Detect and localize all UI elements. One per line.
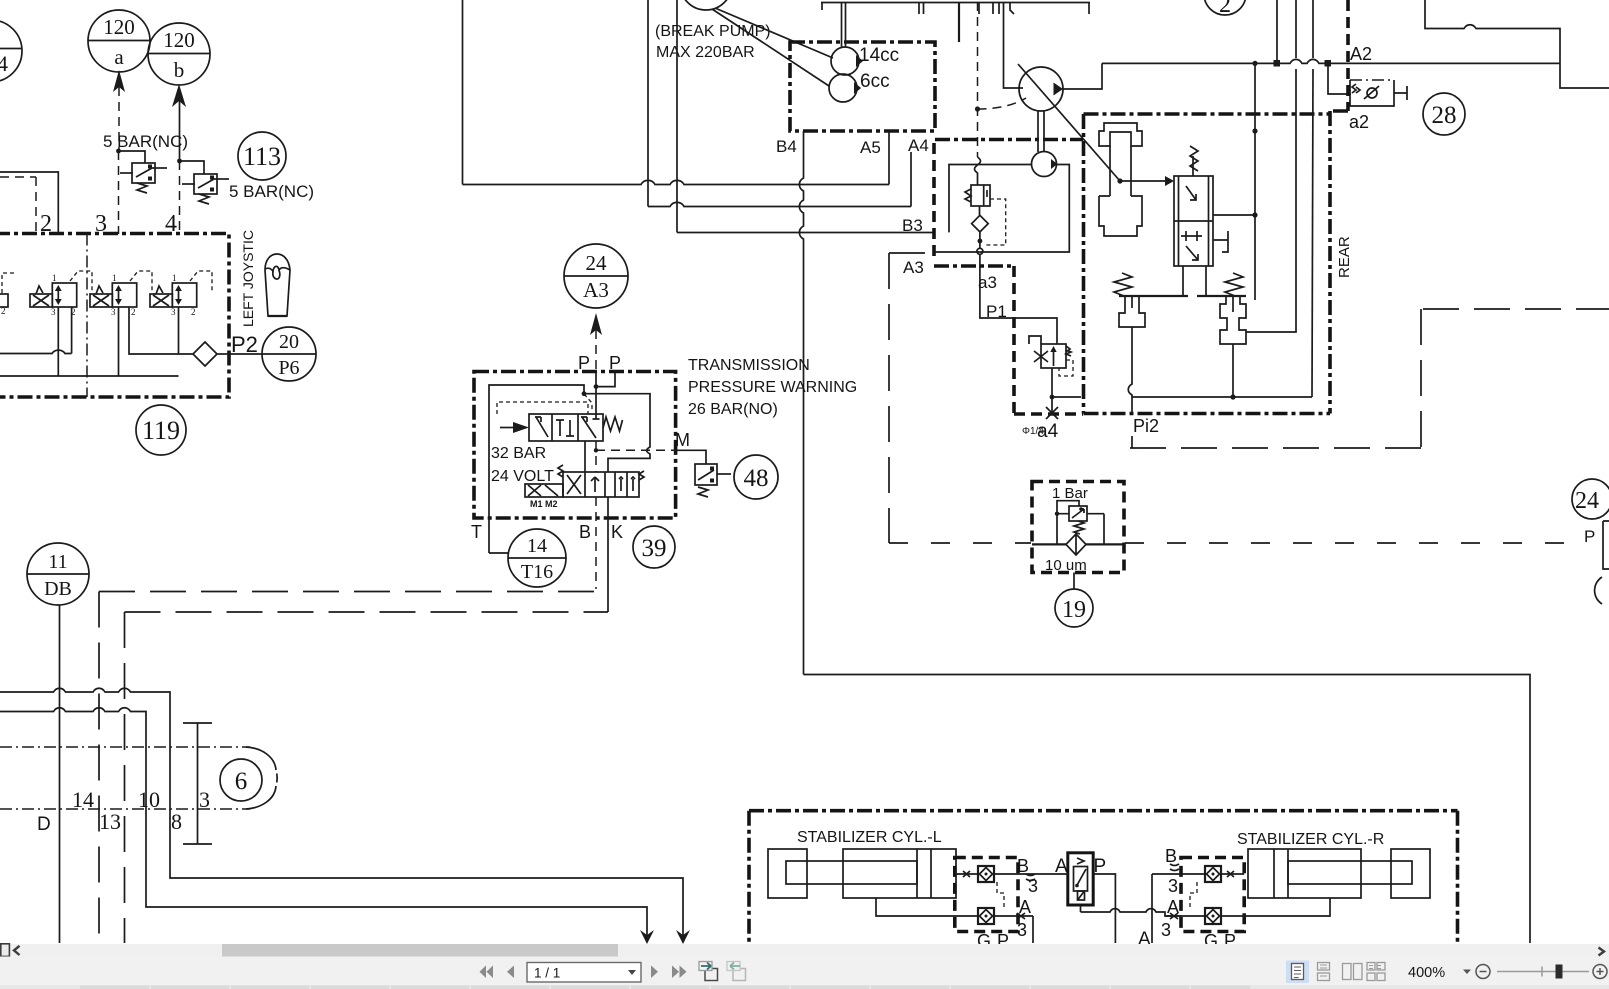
wire plunger right down — [1232, 344, 1234, 397]
svg-text:24 VOLT: 24 VOLT — [491, 468, 554, 485]
long dashed line K — [125, 611, 609, 613]
feeder x1255 — [1254, 63, 1256, 300]
wire 120a dashed drop — [118, 87, 120, 151]
valve bank box 119 — [0, 234, 229, 398]
balloon 14/T16 — [508, 529, 566, 587]
breakpump box — [790, 42, 935, 131]
A3 block dashed edges — [1012, 266, 1016, 414]
wire y206 (to A4) — [648, 202, 911, 206]
pump out wire — [1063, 63, 1102, 89]
balloon 20/P6 — [262, 327, 316, 381]
zoom out — [1476, 965, 1490, 979]
rail ticks — [821, 3, 823, 11]
wire bus y376 — [0, 375, 179, 377]
continuous mode icon — [1318, 963, 1330, 981]
cyl L bottom pipe — [876, 898, 940, 916]
plunger right — [1220, 296, 1246, 344]
dashed region left edge — [889, 253, 930, 543]
dash-dot line lower — [0, 808, 250, 810]
pump 6cc — [829, 74, 861, 102]
charge pump — [1032, 152, 1058, 177]
control valve spool — [1165, 146, 1228, 266]
dashed drops left — [98, 592, 100, 944]
svg-text:A2: A2 — [1350, 44, 1372, 64]
transmission box — [474, 372, 676, 519]
big pump (variable) — [1018, 64, 1120, 181]
svg-text:3: 3 — [1168, 876, 1178, 896]
svg-text:A: A — [1019, 897, 1031, 917]
wire valve B side — [1033, 873, 1068, 875]
wire filter to 19 — [1073, 573, 1075, 590]
wire L A down — [1032, 916, 1034, 943]
wire a3 down — [980, 254, 1057, 344]
arrow down 1 — [640, 930, 654, 944]
svg-text:11: 11 — [48, 551, 67, 573]
scrollbar track — [0, 944, 1609, 957]
UI BARS — [0, 944, 1609, 989]
svg-text:a: a — [114, 45, 124, 69]
valve V4 — [150, 271, 212, 317]
svg-text:B: B — [1165, 846, 1177, 866]
wire plunger left down — [1128, 327, 1132, 414]
svg-text:119: 119 — [142, 416, 180, 445]
svg-text:19: 19 — [1062, 597, 1086, 623]
svg-text:STABILIZER CYL.-L: STABILIZER CYL.-L — [797, 829, 942, 846]
wire A cross link — [1081, 909, 1182, 916]
svg-text:1: 1 — [172, 273, 177, 283]
wire A5 vertical — [888, 131, 890, 185]
check block L — [940, 858, 1033, 932]
scrollbar right arrow — [1599, 948, 1605, 956]
balloon 11/DB — [27, 543, 89, 605]
svg-text:48: 48 — [744, 465, 769, 492]
svg-text:P2: P2 — [231, 332, 258, 357]
wire A2 rail — [1102, 59, 1560, 63]
svg-text:(BREAK PUMP): (BREAK PUMP) — [655, 23, 771, 40]
svg-text:B3: B3 — [902, 216, 923, 235]
exit wire right — [1560, 63, 1609, 88]
svg-text:2: 2 — [1, 306, 6, 316]
filter diamond P2 — [193, 342, 217, 366]
wire B4 vertical with hops — [799, 131, 803, 675]
svg-text:13: 13 — [99, 809, 121, 834]
svg-text:3: 3 — [171, 307, 176, 317]
facing mode icon — [1343, 964, 1363, 980]
prev page button — [507, 966, 514, 979]
svg-text:A3: A3 — [903, 258, 924, 277]
svg-text:LEFT JOYSTIC: LEFT JOYSTIC — [240, 230, 256, 327]
A3 dashdot horizontal — [934, 264, 1014, 268]
P jog — [596, 372, 615, 387]
facing continuous icon — [1367, 963, 1385, 981]
cylinder R — [1248, 849, 1430, 898]
wire bundle y711 — [0, 708, 647, 937]
wire A4 vertical — [910, 152, 912, 207]
valve V1 (partial at edge) — [0, 273, 16, 316]
REAR box — [1084, 111, 1349, 414]
solenoid valve 24V — [525, 465, 644, 497]
svg-text:M1 M2: M1 M2 — [530, 499, 558, 509]
balloon 39 — [633, 526, 675, 568]
wire DB down — [59, 605, 61, 943]
svg-text:A4: A4 — [908, 136, 929, 155]
wire T to balloon — [489, 552, 508, 554]
wire charge pump loop — [949, 165, 1032, 233]
balloon top (partial) — [680, 0, 732, 10]
node j2 — [177, 159, 182, 164]
wire left vertical x462 — [462, 0, 464, 185]
feeder x1296 — [1246, 69, 1296, 332]
balloon 24/A3 — [564, 244, 628, 308]
wire a4 down — [1051, 368, 1053, 413]
svg-text:A5: A5 — [860, 138, 881, 157]
svg-text:B4: B4 — [776, 137, 797, 156]
wire bus y353 left — [0, 350, 72, 353]
arrow up to balloon — [590, 313, 602, 335]
svg-text:3: 3 — [1161, 920, 1171, 940]
svg-text:5 BAR(NC): 5 BAR(NC) — [229, 182, 314, 201]
next view icon — [727, 962, 746, 981]
balloon 24 right (partial) — [1572, 479, 1609, 519]
svg-text:24: 24 — [1575, 488, 1599, 514]
svg-text:2: 2 — [191, 307, 196, 317]
balloon 48 — [734, 455, 778, 499]
svg-text:39: 39 — [642, 535, 667, 562]
dash-dot line upper (to coupler 6) — [0, 746, 250, 748]
shaft line 6 — [183, 723, 212, 844]
balloon 4 (partial, left edge) — [0, 20, 22, 82]
inner block frame — [489, 385, 584, 553]
first page button — [480, 966, 494, 979]
svg-text:20: 20 — [279, 331, 299, 353]
svg-text:3: 3 — [111, 307, 116, 317]
svg-text:A: A — [1167, 897, 1179, 917]
svg-text:B: B — [579, 522, 591, 542]
svg-text:B: B — [1017, 856, 1029, 876]
svg-text:T16: T16 — [521, 561, 553, 583]
REAR boundary dashed from top — [1346, 0, 1350, 111]
prev view icon — [699, 962, 718, 981]
svg-text:TRANSMISSION: TRANSMISSION — [688, 357, 810, 374]
Pi2 dashed tail — [1131, 436, 1133, 448]
svg-text:PRESSURE WARNING: PRESSURE WARNING — [688, 379, 857, 396]
pump 14cc — [831, 47, 863, 75]
main return line — [804, 675, 1531, 944]
center valve P — [1068, 853, 1093, 905]
wire valve drop — [584, 441, 586, 472]
node dots on A2 — [1252, 61, 1257, 66]
wire y232 (B3) — [677, 232, 934, 234]
bottom taskbar sliver — [0, 985, 1609, 989]
svg-text:a2: a2 — [1349, 112, 1369, 132]
svg-text:P6: P6 — [278, 357, 299, 379]
svg-text:113: 113 — [243, 142, 281, 171]
svg-text:2: 2 — [1219, 0, 1231, 18]
svg-text:1: 1 — [112, 273, 117, 283]
balloon 120b — [148, 23, 210, 85]
balloon right lower (partial) — [1595, 577, 1602, 604]
SCHEMATIC — [0, 10, 316, 455]
svg-text:1 Bar: 1 Bar — [1052, 485, 1088, 502]
toolbar background — [0, 957, 1609, 986]
pump inlet wire — [1004, 3, 1024, 89]
svg-text:4: 4 — [0, 51, 8, 76]
scrollbar left arrow — [14, 946, 20, 955]
svg-text:32 BAR: 32 BAR — [491, 445, 546, 462]
svg-text:M: M — [675, 430, 690, 450]
next page button — [651, 966, 658, 979]
dashed pilot from top — [977, 2, 979, 157]
svg-text:1 / 1: 1 / 1 — [534, 966, 560, 981]
wire valve2 drain — [71, 307, 73, 354]
svg-text:A3: A3 — [583, 278, 609, 302]
pump shaft — [842, 3, 846, 48]
balloon 19 — [1055, 589, 1093, 627]
svg-text:24: 24 — [586, 251, 608, 275]
svg-text:14cc: 14cc — [859, 45, 899, 66]
wire valve top port — [1183, 266, 1206, 296]
arrow to 120b — [172, 84, 186, 107]
wire x648 — [647, 0, 649, 207]
wire P2 to balloon — [229, 353, 262, 355]
svg-text:3: 3 — [1028, 876, 1038, 896]
svg-text:3: 3 — [51, 307, 56, 317]
svg-text:MAX 220BAR: MAX 220BAR — [656, 44, 755, 61]
arrow to 120a — [113, 70, 125, 92]
wire valve3 down — [129, 307, 193, 354]
pressure switch S2 — [180, 161, 230, 204]
wire y184 (to A5) — [463, 180, 890, 184]
svg-text:REAR: REAR — [1336, 236, 1353, 278]
valve V3 — [90, 271, 152, 317]
wire x677 — [676, 0, 678, 233]
svg-text:1: 1 — [52, 273, 57, 283]
top right wire — [1425, 0, 1560, 63]
wire valve verticals — [57, 307, 59, 376]
dashed P riser — [595, 330, 597, 372]
stray dashed corner left — [35, 177, 37, 232]
zoom slider — [1497, 971, 1589, 973]
svg-text:D: D — [37, 814, 51, 835]
svg-text:a3: a3 — [978, 273, 997, 292]
filter box 19 — [1032, 482, 1124, 575]
svg-text:120: 120 — [163, 28, 195, 52]
node j1 — [116, 149, 121, 154]
balloon 6 — [220, 759, 262, 801]
port wires T B K — [595, 497, 597, 589]
svg-text:DB: DB — [44, 578, 72, 600]
check valve a2 — [1328, 63, 1407, 106]
pilot break squiggle — [975, 157, 981, 185]
balloon 113 — [238, 132, 286, 180]
svg-text:10 um: 10 um — [1045, 557, 1087, 574]
svg-text:3: 3 — [1017, 920, 1027, 940]
switch 48 — [695, 464, 731, 497]
balloon 2 (partial top) — [1204, 0, 1246, 18]
valve V2 — [30, 271, 92, 317]
dashed wire y543 right — [1125, 542, 1577, 544]
svg-text:28: 28 — [1432, 102, 1457, 129]
last page button — [672, 966, 687, 979]
zoom in — [1593, 965, 1607, 979]
svg-text:b: b — [174, 58, 185, 82]
wire valve2 up — [0, 172, 58, 234]
svg-text:STABILIZER CYL.-R: STABILIZER CYL.-R — [1237, 831, 1384, 848]
spring right — [1225, 273, 1243, 296]
relief valve B3 block — [965, 185, 1006, 245]
servo cylinder — [1099, 123, 1142, 236]
long dashed line B — [99, 591, 596, 593]
wire valve P side — [1093, 874, 1115, 943]
A4/A3 boundary vertical — [932, 143, 936, 259]
leader lines to pumps — [715, 8, 833, 58]
dashed corner right — [1423, 308, 1609, 310]
svg-text:K: K — [611, 522, 623, 542]
stabilizer enclosure — [749, 811, 1458, 943]
balloon 119 — [136, 405, 186, 455]
swash link dot — [1117, 178, 1122, 183]
svg-text:6cc: 6cc — [860, 71, 890, 92]
svg-text:Pi2: Pi2 — [1133, 416, 1159, 436]
svg-text:14: 14 — [72, 787, 94, 812]
balloon 120a — [88, 10, 150, 72]
scrollbar thumb — [222, 944, 618, 957]
pressure switch S1 — [119, 151, 168, 193]
svg-text:5 BAR(NC): 5 BAR(NC) — [103, 132, 188, 151]
page number box — [527, 963, 641, 983]
svg-text:6: 6 — [235, 768, 248, 795]
divider dash-dot — [86, 234, 88, 398]
main solenoid valve 32BAR — [497, 402, 623, 441]
scrollbar left icon — [1, 944, 10, 957]
dashed wire y543 left — [889, 542, 1031, 544]
seat bars — [1119, 295, 1246, 297]
wire diamond to edge — [217, 353, 229, 355]
plunger left — [1119, 296, 1145, 327]
pressure reducing valve a4 — [1029, 336, 1073, 376]
joystick symbol — [265, 254, 290, 316]
M dashed pilot — [596, 449, 676, 451]
pump shaft 2 — [1038, 111, 1044, 152]
spring left — [1114, 273, 1132, 296]
filter diamond a3 — [972, 215, 989, 232]
svg-text:26 BAR(NO): 26 BAR(NO) — [688, 401, 778, 418]
pilot wire right — [584, 394, 650, 472]
cylinder L — [768, 849, 956, 898]
cyl R bottom pipe — [1244, 898, 1330, 916]
svg-text:a4: a4 — [1037, 421, 1059, 442]
check block R — [1152, 858, 1244, 932]
svg-text:2: 2 — [131, 307, 136, 317]
arrow down 2 — [676, 930, 690, 944]
wire relief down — [979, 206, 981, 248]
balloon 28 — [1423, 93, 1465, 135]
A4 dashdot link — [935, 138, 1083, 142]
svg-text:P: P — [1584, 527, 1595, 546]
wire valve bottom — [1080, 905, 1082, 912]
svg-text:T: T — [471, 522, 482, 542]
wire x1152 down — [1151, 874, 1153, 943]
svg-text:14: 14 — [527, 535, 547, 557]
svg-text:120: 120 — [103, 15, 135, 39]
P box right edge (partial) — [1603, 521, 1609, 569]
svg-text:3: 3 — [199, 787, 210, 812]
zoom dropdown caret — [1463, 970, 1471, 975]
feeder x1312 — [1312, 69, 1313, 397]
top rail — [821, 2, 1090, 4]
svg-text:8: 8 — [171, 809, 182, 834]
svg-text:P1: P1 — [986, 302, 1007, 321]
svg-text:400%: 400% — [1408, 965, 1445, 981]
svg-text:10: 10 — [138, 787, 160, 812]
feeder verticals — [1276, 0, 1278, 60]
wire 120b drop — [179, 101, 181, 161]
wire bundle y692 — [0, 688, 683, 937]
single page mode (active) — [1286, 961, 1309, 984]
orifice X a4 — [1046, 407, 1058, 419]
coupler capsule — [246, 747, 276, 809]
wire bus y397 — [1132, 396, 1312, 398]
